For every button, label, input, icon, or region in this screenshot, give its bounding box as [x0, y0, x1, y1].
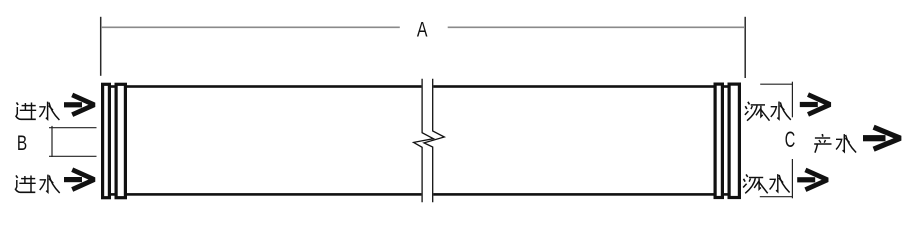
svg-text:C: C: [785, 127, 795, 152]
svg-text:A: A: [417, 19, 428, 43]
svg-text:B: B: [17, 130, 27, 154]
